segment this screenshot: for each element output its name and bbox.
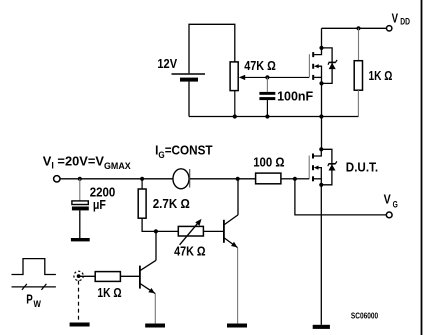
svg-text:12V: 12V — [157, 56, 177, 71]
svg-text:100 Ω: 100 Ω — [253, 155, 284, 170]
svg-text:P: P — [26, 292, 33, 307]
svg-text:IG=CONST: IG=CONST — [155, 143, 213, 161]
svg-text:2.7K Ω: 2.7K Ω — [153, 196, 190, 211]
svg-text:1K Ω: 1K Ω — [369, 68, 393, 83]
svg-text:V: V — [384, 192, 391, 207]
svg-text:100nF: 100nF — [277, 89, 313, 104]
svg-text:SC06000: SC06000 — [351, 311, 378, 321]
svg-text:V: V — [392, 10, 399, 25]
svg-text:1K Ω: 1K Ω — [97, 285, 121, 300]
svg-text:47K Ω: 47K Ω — [244, 58, 276, 73]
svg-text:D.U.T.: D.U.T. — [346, 159, 378, 174]
svg-text:47K Ω: 47K Ω — [174, 244, 206, 259]
svg-text:G: G — [393, 200, 398, 210]
svg-text:W: W — [34, 299, 42, 309]
svg-text:μF: μF — [93, 197, 106, 212]
svg-text:DD: DD — [400, 17, 410, 27]
